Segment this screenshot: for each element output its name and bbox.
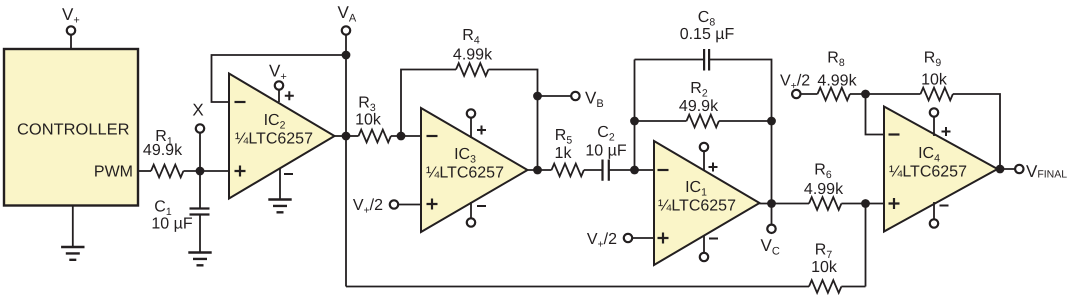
wire V+/2 to R8 [801,93,818,95]
svg-text:49.9k: 49.9k [679,98,719,115]
svg-text:10 µF: 10 µF [151,216,192,233]
svg-text:V+: V+ [62,5,80,27]
ground (C1) [188,253,211,266]
svg-text:¼LTC6257: ¼LTC6257 [658,197,736,214]
wire R8 to R9 [850,93,921,95]
resistor R2 49.9k [679,80,719,127]
wire V+/2 to IC1 + input [633,237,654,239]
svg-text:VC: VC [761,236,780,258]
node R6/R7 junction [861,199,870,208]
node R2 right junction [767,117,776,126]
svg-text:¼LTC6257: ¼LTC6257 [889,163,967,180]
svg-text:R8: R8 [827,50,845,70]
wire junction down to bottom rail [865,204,867,287]
wire IC2 ground stub [279,168,281,200]
node VA-feedback junction [342,51,351,60]
wire V+/2 to IC3 + input [399,204,421,206]
terminal IC4 V- [930,219,938,227]
terminal IC4 V+ [930,108,938,116]
ground (controller) [61,247,84,260]
wire R3 to IC3 - input [391,135,421,137]
wire R2 row left [635,120,687,122]
svg-text:R4: R4 [462,27,480,47]
node C2/feedback junction [630,166,639,175]
wire VC stub [771,204,773,225]
terminal V+/2 (R8) [780,73,810,99]
svg-text:R5: R5 [555,127,573,147]
node R3/R4 junction [397,132,406,141]
capacitor C8 0.15uF [680,9,735,71]
resistor R4 4.99k [453,27,493,76]
node X junction [196,167,205,176]
svg-text:4.99k: 4.99k [453,47,493,64]
resistor R6 4.99k [804,162,844,210]
resistor R1 49.9k [143,128,183,177]
wire VA to R3 [346,135,359,137]
wire IC3 top power stub [470,118,472,138]
wire R4 loop left/top [401,70,456,137]
wire IC4 bottom power stub [933,202,935,219]
wire controller to ground [72,206,74,248]
ground (IC2) [268,200,291,213]
svg-text:10k: 10k [921,72,948,89]
wire IC1 bottom power stub [703,235,705,253]
svg-text:V+/2: V+/2 [587,231,617,251]
terminal V+ (controller supply) [62,5,80,35]
wire junction to IC4 - input [866,94,885,135]
svg-text:4.99k: 4.99k [804,181,844,198]
terminal VC [761,225,780,258]
terminal V+/2 (IC3) [353,197,398,217]
terminal V+/2 (IC1) [587,231,632,251]
wire IC2 feedback loop [212,55,347,102]
svg-text:R2: R2 [690,80,708,100]
resistor R3 10k [355,95,391,143]
wire IC1 top power stub [703,151,705,171]
svg-text:¼LTC6257: ¼LTC6257 [426,164,504,181]
wire IC2 output [335,135,347,137]
wire C2 to IC1 - input [609,169,654,171]
svg-text:R9: R9 [924,50,942,70]
svg-text:V+/2: V+/2 [353,197,383,217]
node R8/R9 junction [861,90,870,99]
op-amp IC1 1/4LTC6257 [654,141,760,265]
wire C8 top left [635,59,705,61]
svg-text:V+: V+ [269,62,287,84]
terminal IC1 V+ [700,143,708,151]
node IC1 output junction [767,199,776,208]
terminal VB [571,89,603,111]
wire R6 to IC4 + input [841,203,884,205]
svg-text:CONTROLLER: CONTROLLER [17,122,130,139]
svg-text:¼LTC6257: ¼LTC6257 [235,130,313,147]
resistor R8 4.99k [817,50,857,101]
resistor R9 10k [921,50,953,101]
wire R4 to IC3 output [488,70,537,171]
svg-text:C2: C2 [597,124,615,144]
wire V+ to controller [70,35,72,49]
svg-text:1k: 1k [555,145,573,162]
node VA-R3 junction [342,132,351,141]
terminal VFINAL [1015,162,1067,181]
svg-text:10 µF: 10 µF [585,143,626,160]
terminal V+ (IC2) [269,62,287,90]
svg-text:VFINAL: VFINAL [1026,162,1067,181]
wire PWM output [138,170,151,172]
op-amp IC3 1/4LTC6257 [421,108,528,232]
op-amp IC4 1/4LTC6257 [884,107,998,232]
terminal X [192,101,204,133]
wire X to node [199,133,201,171]
capacitor C2 10uF [585,124,626,181]
wire C8 top right [709,60,771,204]
op-amp IC2 1/4LTC6257 [229,74,335,199]
svg-text:R6: R6 [814,162,832,182]
terminal IC3 V+ [467,109,475,117]
capacitor C1 10uF [151,199,209,233]
resistor R5 1k [552,127,584,176]
node R2 left junction [630,117,639,126]
wire VB stub [538,95,572,97]
resistor R7 10k [809,242,841,293]
svg-text:X: X [192,101,203,120]
controller block [4,49,138,206]
wire R9 to output [953,94,1000,169]
svg-text:PWM: PWM [94,164,133,181]
wire R2 row right [719,120,772,122]
wire IC1 output [760,203,810,205]
wire bottom rail left of R7 [346,286,809,288]
wire R5 to C2 [584,169,603,171]
wire R1 to IC2 + input [183,170,229,172]
node IC3 output junction [533,166,542,175]
svg-text:VB: VB [585,89,604,111]
svg-text:4.99k: 4.99k [817,73,857,90]
wire IC4 top power stub [933,117,935,136]
wire IC3 bottom power stub [470,202,472,218]
svg-text:10k: 10k [811,259,838,276]
svg-text:VA: VA [338,3,357,25]
node VB junction [533,92,542,101]
wire IC3 output [528,169,552,171]
wire VA vertical rail [345,35,347,287]
terminal IC3 V- [467,218,475,226]
svg-text:0.15 µF: 0.15 µF [680,26,735,43]
wire C8 loop left vertical [634,60,636,171]
svg-text:10k: 10k [355,112,382,129]
wire node to C1 [199,171,201,209]
wire IC4 output [998,168,1016,170]
node IC4 output junction [996,165,1005,174]
wire bottom rail right of R7 [841,286,865,288]
wire C1 to ground [199,215,201,253]
svg-text:49.9k: 49.9k [143,142,183,159]
wire IC2 V+ stub [278,90,280,102]
terminal IC1 V- [700,253,708,261]
terminal VA [338,3,357,35]
